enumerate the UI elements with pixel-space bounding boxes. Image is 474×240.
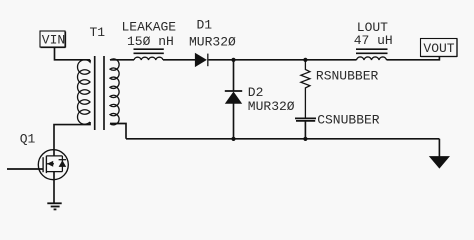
wire transformer secondary bottom to ground rail xyxy=(110,124,126,139)
Q1 gate bar xyxy=(42,157,44,172)
svg-text:MUR32Ø: MUR32Ø xyxy=(248,99,295,114)
inductor LOUT winding xyxy=(357,57,387,60)
inductor LOUT core lines xyxy=(356,49,388,53)
return arrow (down triangle) xyxy=(430,157,449,168)
node dot RSNUBBER top xyxy=(303,58,307,62)
ground rail (bottom wire) xyxy=(126,138,439,140)
transistor Q1 body circle xyxy=(38,150,68,180)
svg-text:MUR32Ø: MUR32Ø xyxy=(189,35,236,50)
wire leakage inductor to D1 anode xyxy=(163,59,195,61)
diode D2 xyxy=(225,90,242,92)
svg-text:RSNUBBER: RSNUBBER xyxy=(316,68,379,83)
Q1 body diode xyxy=(59,159,67,161)
port VIN box xyxy=(40,31,65,47)
Q1 substrate arrow xyxy=(46,163,54,165)
inductor LEAKAGE core lines xyxy=(134,49,164,53)
transformer T1 primary winding xyxy=(77,60,90,125)
transformer T1 secondary winding xyxy=(110,59,119,125)
wire D2 branch vertical xyxy=(233,60,235,91)
transformer T1 core lines xyxy=(95,56,104,130)
wire transformer secondary top to leakage inductor xyxy=(110,59,134,61)
Q1 source wire to ground xyxy=(53,172,55,203)
svg-text:VIN: VIN xyxy=(42,33,65,48)
node dot D2 anode on rail xyxy=(231,137,235,141)
wire D1 cathode to LOUT (top rail) xyxy=(209,59,357,61)
wire rail to return arrow xyxy=(438,139,440,157)
svg-text:VOUT: VOUT xyxy=(423,41,454,56)
svg-text:Q1: Q1 xyxy=(20,132,36,147)
wire LOUT to VOUT port xyxy=(387,57,440,60)
wire VIN to transformer primary top xyxy=(55,47,91,62)
wire transformer primary bottom to Q1 drain xyxy=(54,122,90,156)
svg-text:15Ø nH: 15Ø nH xyxy=(127,34,174,49)
svg-text:47 uH: 47 uH xyxy=(354,33,393,48)
Q1 channel bar xyxy=(45,156,47,173)
svg-text:CSNUBBER: CSNUBBER xyxy=(317,113,380,128)
Q1 gate wire xyxy=(7,168,43,170)
svg-text:D1: D1 xyxy=(196,18,212,33)
Q1 drain/source internal bars xyxy=(46,156,62,172)
node dot D1/D2 junction top xyxy=(231,58,235,62)
node dot CSNUBBER on rail xyxy=(303,137,307,141)
ground symbol xyxy=(47,202,61,204)
diode D1 xyxy=(195,54,206,67)
port VOUT box xyxy=(421,39,458,57)
svg-text:T1: T1 xyxy=(89,25,105,40)
inductor LEAKAGE winding xyxy=(134,57,163,60)
svg-text:LEAKAGE: LEAKAGE xyxy=(121,19,176,34)
capacitor CSNUBBER xyxy=(295,117,316,119)
svg-text:D2: D2 xyxy=(248,85,264,100)
resistor RSNUBBER xyxy=(301,60,310,119)
